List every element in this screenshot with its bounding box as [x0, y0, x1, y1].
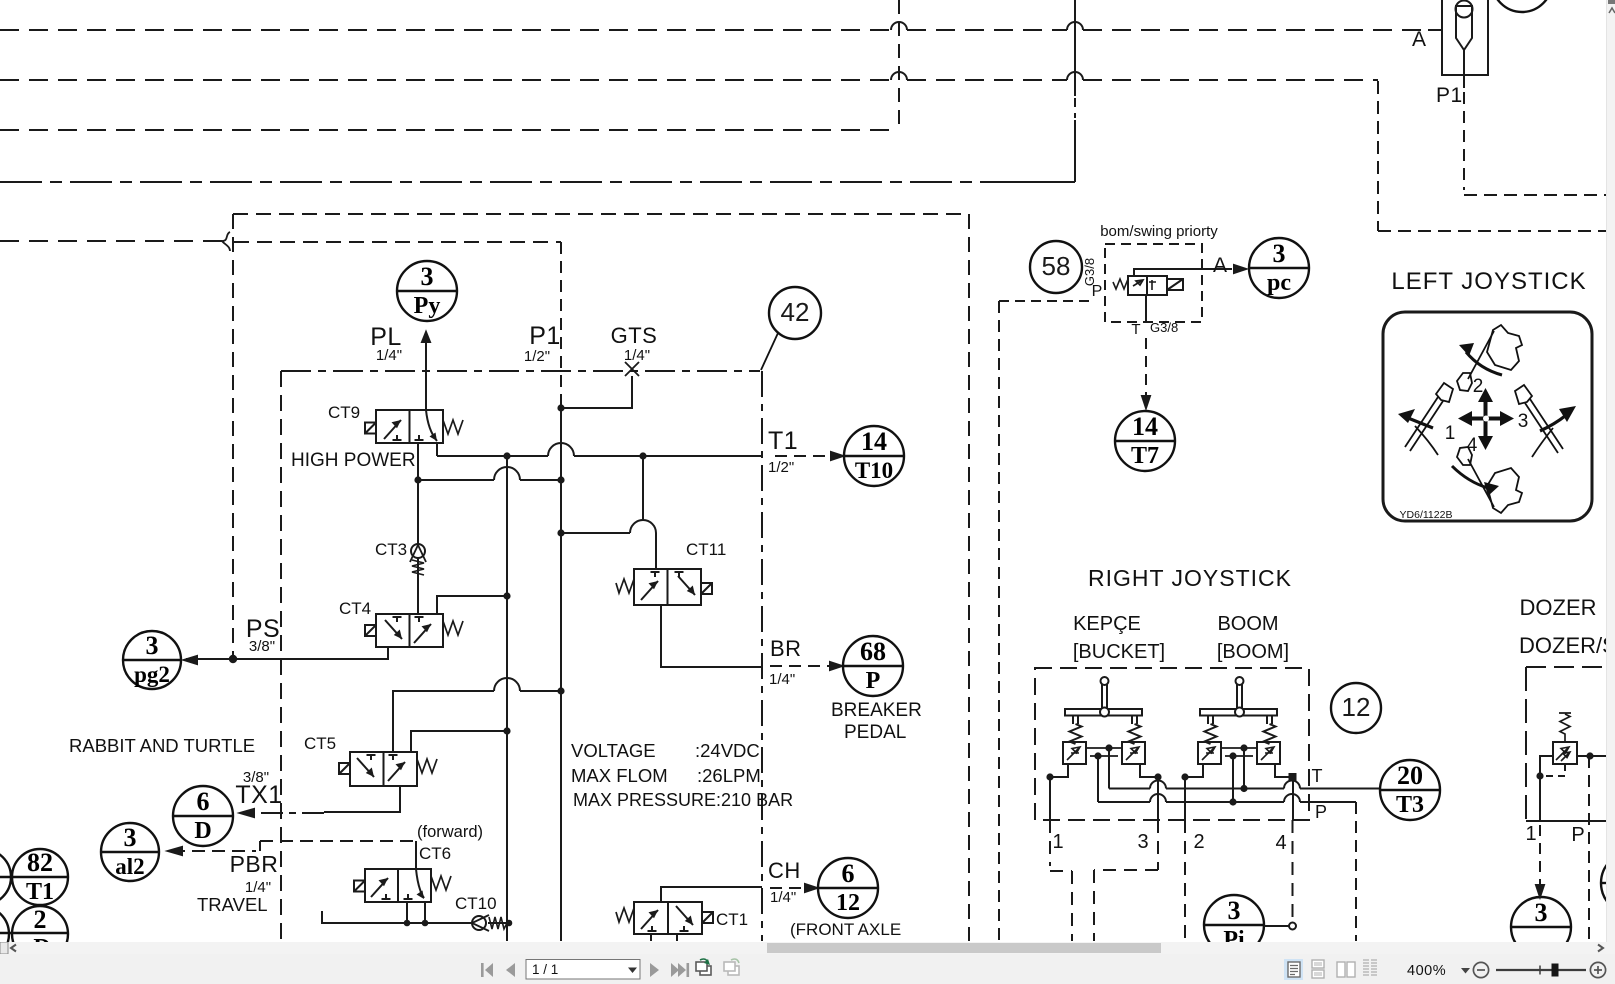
svg-text:6: 6 [197, 787, 210, 816]
svg-text:12: 12 [1342, 692, 1371, 722]
svg-text:T7: T7 [1131, 443, 1159, 469]
svg-text:1: 1 [1445, 423, 1456, 444]
svg-text:4: 4 [1275, 832, 1286, 854]
svg-text:pc: pc [1267, 270, 1291, 296]
svg-text:3: 3 [1137, 831, 1148, 853]
svg-text:CT5: CT5 [304, 734, 336, 753]
svg-text:pg2: pg2 [134, 662, 170, 687]
svg-text:T1: T1 [768, 427, 798, 455]
svg-text:6: 6 [842, 859, 855, 888]
svg-text:RIGHT JOYSTICK: RIGHT JOYSTICK [1088, 565, 1292, 591]
svg-text:CT9: CT9 [328, 403, 360, 422]
svg-text:al2: al2 [115, 854, 144, 879]
svg-text:1/2": 1/2" [768, 459, 794, 476]
svg-text:CT10: CT10 [455, 894, 497, 913]
svg-text:D: D [194, 818, 211, 844]
svg-text:P: P [1571, 824, 1584, 846]
svg-text:3/8": 3/8" [243, 769, 269, 786]
svg-text:Pi: Pi [1223, 927, 1245, 942]
svg-text:CT6: CT6 [419, 844, 451, 863]
svg-text:YD6/1122B: YD6/1122B [1400, 509, 1453, 521]
svg-text:14: 14 [861, 427, 887, 456]
svg-text:P: P [1315, 802, 1327, 822]
svg-text:3: 3 [124, 823, 137, 852]
svg-text:2: 2 [34, 905, 47, 934]
svg-text:3: 3 [421, 262, 434, 291]
svg-text:DOZER: DOZER [1520, 595, 1597, 620]
svg-text:68: 68 [860, 637, 886, 666]
svg-text:1: 1 [1052, 831, 1063, 853]
svg-text:BR: BR [770, 636, 802, 661]
svg-text:T3: T3 [1396, 792, 1424, 818]
svg-text:TRAVEL: TRAVEL [197, 894, 268, 915]
svg-text:14: 14 [1132, 412, 1158, 441]
svg-text:T: T [1312, 766, 1323, 786]
svg-text:82: 82 [27, 848, 53, 877]
svg-text:CH: CH [768, 858, 801, 883]
svg-text:LEFT JOYSTICK: LEFT JOYSTICK [1391, 268, 1586, 295]
svg-text:G3/8: G3/8 [1082, 258, 1097, 286]
svg-text:T1: T1 [26, 879, 54, 905]
svg-text:GTS: GTS [611, 323, 658, 348]
svg-text:G3/8: G3/8 [1150, 320, 1178, 335]
svg-text:MAX PRESSURE:210 BAR: MAX PRESSURE:210 BAR [573, 790, 793, 810]
svg-text:3: 3 [1535, 898, 1548, 927]
svg-text:RABBIT AND TURTLE: RABBIT AND TURTLE [69, 735, 255, 756]
svg-text:CT1: CT1 [716, 910, 748, 929]
svg-text:1/4": 1/4" [769, 671, 795, 688]
svg-text:DOZER/S: DOZER/S [1519, 633, 1615, 658]
svg-text:1/4": 1/4" [376, 347, 402, 364]
svg-text:KEPÇE: KEPÇE [1073, 613, 1141, 635]
svg-text:A: A [1213, 254, 1228, 277]
svg-text:3: 3 [1228, 896, 1241, 925]
svg-text:HIGH POWER: HIGH POWER [291, 450, 416, 471]
svg-text:bom/swing priorty: bom/swing priorty [1100, 223, 1218, 240]
svg-text::24VDC: :24VDC [695, 740, 760, 761]
svg-text:CT4: CT4 [339, 599, 371, 618]
svg-text:3/8": 3/8" [249, 638, 275, 655]
svg-text:BREAKER: BREAKER [831, 700, 922, 721]
svg-text:2: 2 [1473, 376, 1484, 397]
svg-text:PEDAL: PEDAL [844, 722, 906, 743]
svg-text:P1: P1 [529, 322, 561, 350]
svg-text:1 / 1: 1 / 1 [532, 962, 558, 977]
svg-text:[BUCKET]: [BUCKET] [1073, 641, 1165, 663]
svg-text:PBR: PBR [230, 851, 279, 877]
svg-text:12: 12 [836, 890, 860, 916]
svg-text:(FRONT AXLE: (FRONT AXLE [790, 920, 901, 939]
svg-text:A: A [1412, 28, 1427, 51]
svg-text:20: 20 [1397, 761, 1423, 790]
svg-text:CT3: CT3 [375, 540, 407, 559]
svg-text:Py: Py [414, 293, 441, 319]
svg-text:3: 3 [146, 631, 159, 660]
svg-text:P1: P1 [1436, 84, 1463, 107]
svg-text::26LPM: :26LPM [697, 765, 761, 786]
svg-text:(forward): (forward) [417, 823, 483, 841]
svg-text:4: 4 [1467, 435, 1478, 456]
svg-text:400%: 400% [1407, 963, 1446, 979]
svg-text:2: 2 [1193, 831, 1204, 853]
svg-text:CT11: CT11 [686, 540, 726, 559]
svg-text:3: 3 [1518, 411, 1529, 432]
svg-text:VOLTAGE: VOLTAGE [571, 740, 656, 761]
svg-text:58: 58 [1042, 251, 1071, 281]
svg-text:1/4": 1/4" [770, 889, 796, 906]
svg-text:3: 3 [1273, 239, 1286, 268]
svg-text:MAX FLOM: MAX FLOM [571, 765, 668, 786]
svg-text:1: 1 [1525, 823, 1536, 845]
svg-text:1/2": 1/2" [524, 348, 550, 365]
svg-text:P: P [866, 668, 881, 694]
svg-text:BOOM: BOOM [1217, 613, 1278, 635]
svg-text:D: D [33, 935, 50, 942]
svg-text:[BOOM]: [BOOM] [1217, 641, 1289, 663]
svg-text:42: 42 [781, 297, 810, 327]
svg-text:1/4": 1/4" [624, 347, 650, 364]
svg-text:T: T [1131, 321, 1140, 338]
svg-text:T10: T10 [855, 458, 893, 483]
